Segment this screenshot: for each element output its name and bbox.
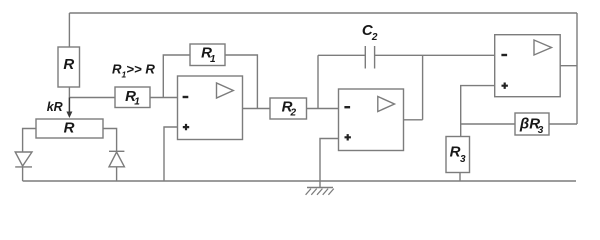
resistor R3 bbox=[446, 137, 470, 173]
wire R3 bottom to rail bbox=[459, 173, 461, 182]
op-amp U1 bbox=[178, 76, 243, 140]
U1 plus pin bbox=[183, 124, 189, 130]
svg-text:1: 1 bbox=[134, 97, 140, 108]
potentiometer R (horizontal) bbox=[36, 119, 103, 138]
wire pot left end down to D1 bbox=[23, 129, 36, 152]
wire U1 output to R2 bbox=[243, 108, 271, 110]
node kR: horizontal wire to R1 bbox=[69, 97, 115, 99]
wire R2 to op-amp U2 inverting input bbox=[307, 108, 339, 110]
resistor R1 (feedback) bbox=[190, 44, 225, 66]
wire bottom rail bbox=[23, 180, 576, 182]
resistor beta-R3 bbox=[515, 113, 549, 135]
wire C2 right junction down to U2 output bbox=[422, 55, 424, 120]
svg-text:kR: kR bbox=[47, 100, 63, 114]
wire U3 output bbox=[560, 65, 577, 67]
wire D2 to bottom rail bbox=[116, 167, 118, 181]
svg-text:1: 1 bbox=[210, 54, 216, 65]
U2 plus pin bbox=[345, 134, 351, 140]
wire beta-R3 left bbox=[461, 123, 515, 125]
wire feedback junction up and to R1fb bbox=[163, 55, 190, 98]
wire pot right end down to D2 bbox=[103, 129, 117, 152]
resistor R (vertical, top-left) bbox=[58, 47, 80, 87]
wire right edge drop to beta-R3 bbox=[576, 13, 578, 124]
wiper arrow onto potentiometer bbox=[68, 98, 70, 113]
svg-text:2: 2 bbox=[371, 32, 378, 43]
svg-text:R: R bbox=[64, 120, 75, 137]
op-amp U3 bbox=[495, 35, 561, 97]
U2 minus pin bbox=[344, 106, 350, 108]
diode D2 (pointing up) bbox=[109, 150, 124, 152]
svg-text:3: 3 bbox=[460, 154, 466, 165]
wire top feedback rail bbox=[69, 12, 577, 14]
U3 plus pin bbox=[502, 83, 508, 89]
diode D1 (pointing down) bbox=[15, 152, 32, 166]
U1 minus pin bbox=[183, 96, 189, 98]
op-amp U2 bbox=[339, 89, 404, 151]
wire D1 to bottom rail bbox=[22, 167, 24, 181]
wire U2 output bbox=[404, 119, 423, 121]
wire C2 left vertical bbox=[317, 55, 319, 108]
svg-text:2: 2 bbox=[290, 108, 297, 119]
svg-text:3: 3 bbox=[538, 125, 544, 136]
wire R1 to op-amp U1 inverting input bbox=[150, 97, 178, 99]
wire U2 plus input down to ground bbox=[320, 139, 339, 188]
svg-text:R: R bbox=[450, 143, 461, 160]
wire U1 plus input to bottom rail bbox=[164, 127, 178, 181]
wire R bottom to kR node bbox=[68, 87, 70, 98]
resistor R2 bbox=[270, 98, 307, 119]
resistor R1 (input) bbox=[115, 87, 150, 108]
wire beta-R3 right to edge drop bbox=[549, 123, 577, 125]
svg-text:R1>> R: R1>> R bbox=[112, 62, 155, 80]
wire R1fb right down to U1 output bbox=[225, 55, 257, 109]
svg-text:R: R bbox=[63, 56, 74, 73]
U3 minus pin bbox=[501, 54, 507, 56]
wire U3 plus input left and down to R3 bbox=[461, 86, 495, 137]
capacitor C2 bbox=[318, 46, 495, 69]
ground symbol bbox=[307, 187, 333, 189]
wire top rail down to R bbox=[68, 13, 70, 47]
